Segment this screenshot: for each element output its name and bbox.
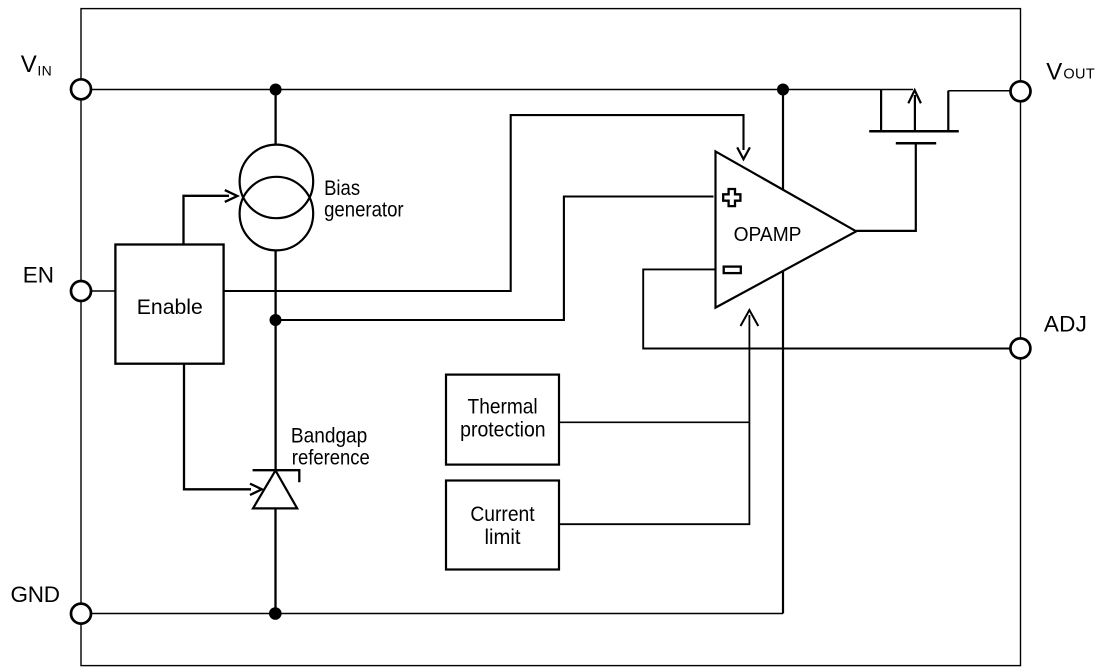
node junction dot bandgap tap (270, 314, 282, 326)
wire opamp V+ supply from V_IN rail (782, 90, 784, 190)
wire Enable output to opamp top (with down arrow) (224, 115, 744, 291)
svg-text:EN: EN (23, 262, 54, 287)
bias generator (current source, two circles) (240, 145, 314, 219)
node junction dot on V_IN rail (bias) (270, 84, 282, 96)
thermal protection block (446, 375, 559, 465)
svg-text:ADJ: ADJ (1044, 311, 1087, 336)
wire V_OUT segment from pass transistor to V_OUT pin (948, 90, 1020, 92)
bandgap reference zener diode (253, 470, 300, 482)
svg-text:Enable: Enable (137, 295, 203, 319)
op-amp OPAMP triangle (716, 151, 857, 307)
terminal EN (71, 281, 91, 301)
arrowhead of PMOS source (908, 90, 921, 103)
wire bandgap anode to GND rail (274, 508, 276, 613)
node junction dot on GND rail (269, 607, 282, 620)
wire opamp - input to ADJ pin (643, 269, 1010, 348)
pass transistor PMOS (880, 90, 882, 132)
wire Enable to bandgap reference (arrow) (184, 364, 251, 490)
wire Enable to bias generator (arrow) (184, 196, 230, 245)
arrowhead into opamp top (737, 147, 750, 159)
svg-text:protection: protection (460, 418, 546, 441)
wire thermal protection to comparator node (559, 421, 749, 423)
enable block (115, 245, 223, 364)
svg-text:OPAMP: OPAMP (734, 224, 802, 246)
wire bias vertical from V_IN rail to bias generator (274, 90, 276, 145)
arrowhead into bandgap (250, 484, 262, 495)
wire V_IN rail (81, 89, 913, 91)
svg-text:OUT: OUT (1063, 66, 1094, 82)
wire EN stub (91, 290, 115, 292)
svg-text:V: V (21, 51, 37, 78)
svg-text:Thermal: Thermal (468, 395, 538, 418)
current limit block (446, 481, 559, 570)
svg-text:limit: limit (485, 526, 521, 549)
wire opamp output to pass transistor gate (856, 145, 916, 231)
svg-text:Bandgap: Bandgap (291, 425, 367, 448)
terminal V_OUT (1011, 81, 1031, 101)
svg-text:Bias: Bias (324, 177, 360, 200)
wire bandgap node to opamp + input (276, 197, 714, 321)
opamp + input symbol (723, 189, 740, 206)
svg-text:Current: Current (470, 503, 534, 526)
wire bias generator to bandgap (through node) (274, 250, 276, 470)
svg-text:reference: reference (292, 447, 370, 470)
wire opamp V- supply to GND rail (782, 271, 784, 613)
opamp - input symbol (724, 267, 741, 274)
svg-text:IN: IN (37, 63, 51, 79)
node junction dot on V_IN rail (opamp supply) (777, 84, 789, 96)
terminal V_IN (71, 79, 91, 99)
wire GND rail (81, 613, 783, 615)
wire current limit to opamp bottom (with up arrow) (559, 315, 749, 524)
terminal ADJ (1010, 338, 1030, 358)
terminal GND (71, 604, 91, 624)
arrowhead into bias generator (225, 190, 238, 202)
svg-text:V: V (1046, 58, 1062, 85)
svg-text:generator: generator (324, 199, 404, 222)
arrowhead into opamp bottom (741, 310, 759, 326)
svg-text:GND: GND (11, 582, 61, 607)
